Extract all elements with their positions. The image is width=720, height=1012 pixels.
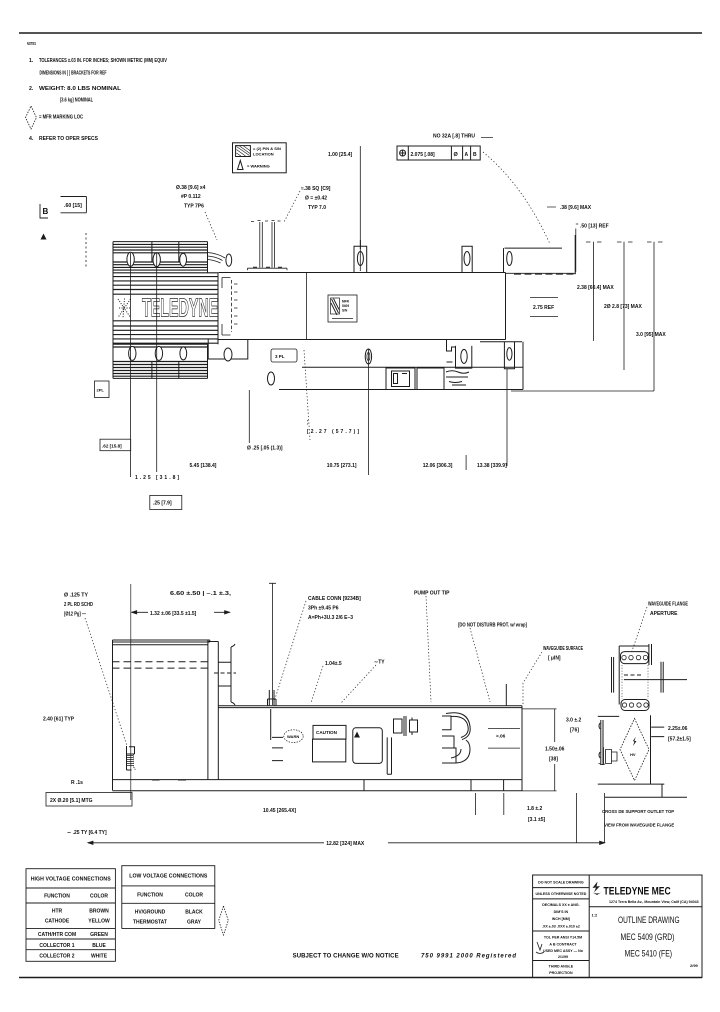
left margin small box	[95, 381, 110, 398]
svg-text:2.: 2.	[29, 86, 34, 92]
svg-text:12.82 [324] MAX: 12.82 [324] MAX	[326, 841, 365, 847]
datum extension dotted	[85, 233, 87, 268]
right bracket	[218, 644, 235, 705]
svg-text:10.75 [273.1]: 10.75 [273.1]	[327, 463, 357, 469]
svg-text:FUNCTION: FUNCTION	[44, 894, 70, 900]
tall block outline	[113, 640, 219, 790]
svg-text:.50 [13] REF: .50 [13] REF	[580, 224, 609, 230]
svg-text:3 PL: 3 PL	[275, 354, 285, 359]
pins text block	[301, 186, 331, 211]
svg-text:1.50±.06: 1.50±.06	[545, 747, 565, 753]
svg-text:[DO NOT DISTURB PROT. w/ wrap]: [DO NOT DISTURB PROT. w/ wrap]	[458, 623, 527, 629]
block bottom hidden dashes	[152, 779, 186, 781]
svg-text:1274 Terra Bella Av., Mountain: 1274 Terra Bella Av., Mountain View, Cal…	[609, 900, 699, 904]
lead loop upper	[442, 713, 470, 740]
svg-text:Ø: Ø	[454, 152, 459, 158]
svg-text:BROWN: BROWN	[89, 909, 109, 915]
svg-text:TYP 7.0: TYP 7.0	[308, 205, 326, 211]
svg-text:2.25±.06: 2.25±.06	[668, 726, 688, 732]
svg-text:LOW VOLTAGE CONNECTIONS: LOW VOLTAGE CONNECTIONS	[129, 874, 208, 880]
svg-text:[3.6 kg] NOMINAL: [3.6 kg] NOMINAL	[60, 98, 94, 104]
svg-text:CAUTION: CAUTION	[316, 730, 338, 735]
svg-text:[Ø12 Pg] —: [Ø12 Pg] —	[64, 612, 86, 618]
svg-text:TOL PER ANSI Y14.5M: TOL PER ANSI Y14.5M	[544, 936, 582, 940]
dim arrow 1.32	[132, 611, 230, 614]
svg-text:1.8 ±.2: 1.8 ±.2	[527, 806, 542, 812]
svg-text:∼ .25 TY [6.4 TY]: ∼ .25 TY [6.4 TY]	[67, 830, 107, 836]
svg-text:REFER TO OPER SPECS: REFER TO OPER SPECS	[39, 136, 99, 142]
svg-text:HV: HV	[630, 752, 636, 757]
REF box	[530, 298, 558, 317]
rf tab	[447, 340, 472, 369]
right dim ticks	[651, 727, 664, 737]
svg-text:CATHODE: CATHODE	[45, 919, 70, 925]
svg-text:HTR: HTR	[52, 909, 63, 915]
svg-text:GRAY: GRAY	[187, 920, 202, 926]
flange bolt holes top	[622, 655, 626, 659]
svg-text:SUBJECT TO CHANGE W/O NOTICE: SUBJECT TO CHANGE W/O NOTICE	[293, 954, 399, 960]
svg-text:A B CONTRACT: A B CONTRACT	[549, 943, 577, 947]
dim ticks .06	[488, 729, 520, 749]
strip small hole	[268, 372, 275, 385]
boxed label on strip	[271, 349, 297, 362]
svg-text:THERMOSTAT: THERMOSTAT	[133, 920, 167, 926]
inner tick marks	[272, 737, 283, 760]
svg-text:DECIMALS XX ± ANG.: DECIMALS XX ± ANG.	[542, 903, 579, 907]
fin lines lower flange	[113, 347, 208, 376]
svg-text:TYP 7P6: TYP 7P6	[184, 204, 204, 210]
pump out tip	[505, 684, 507, 706]
svg-text:= WARNING: = WARNING	[247, 164, 270, 169]
datum B symbol	[40, 204, 48, 218]
top border line	[19, 32, 702, 34]
dotted leader to fin corner	[205, 212, 217, 240]
svg-text:4.: 4.	[29, 136, 34, 142]
teledyne logo mark	[593, 882, 601, 893]
GDT leader dotted	[483, 152, 550, 243]
flange top holes plate	[621, 652, 649, 664]
fin slot hole 2	[153, 253, 160, 267]
lower fin slot hole 3	[180, 347, 187, 360]
top tab hole 3	[507, 252, 512, 266]
connector note	[308, 596, 361, 621]
rf channel	[387, 737, 391, 774]
svg-text:WHITE: WHITE	[91, 954, 108, 960]
svg-text:DO NOT SCALE DRAWING: DO NOT SCALE DRAWING	[538, 881, 584, 885]
svg-text:OUTLINE DRAWING: OUTLINE DRAWING	[618, 915, 680, 925]
base plate	[113, 780, 523, 791]
low voltage connections table	[122, 866, 215, 929]
svg-text:6.60 ±.50 | −.1 ±.3,: 6.60 ±.50 | −.1 ±.3,	[170, 591, 232, 597]
svg-text:B: B	[43, 207, 49, 216]
fin lines middle band	[113, 277, 218, 345]
hole centerline 1	[130, 253, 132, 477]
svg-text:R .1s: R .1s	[71, 780, 83, 786]
svg-text:[38]: [38]	[549, 757, 558, 763]
approval squiggle	[536, 942, 544, 954]
svg-text:#P 0.112: #P 0.112	[181, 194, 201, 200]
svg-text:5409: 5409	[342, 304, 349, 308]
svg-text:WARN: WARN	[287, 734, 299, 739]
boxed dim .25	[150, 495, 182, 509]
flange lower holes plate	[621, 700, 649, 711]
pin top marks	[251, 221, 281, 222]
rf tab hole	[461, 349, 467, 363]
svg-text:2 PL RD SCHD: 2 PL RD SCHD	[64, 602, 93, 608]
svg-text:[57.2±1.5]: [57.2±1.5]	[668, 737, 691, 743]
flange centerlines	[624, 674, 642, 676]
svg-text:DIM'S IN: DIM'S IN	[554, 910, 569, 914]
fin slot dividers upper	[152, 242, 179, 262]
detail legend box	[233, 143, 287, 173]
lower strip outline	[208, 340, 523, 390]
table marking diamond	[219, 906, 229, 935]
flying leads from fin block	[208, 253, 226, 264]
pin 2	[272, 222, 275, 268]
svg-text:.XX ±.03 .XXX ±.010 ±2: .XX ±.03 .XXX ±.010 ±2	[542, 925, 580, 929]
svg-text:CATH/HTR COM: CATH/HTR COM	[38, 932, 76, 938]
warning diamond	[620, 719, 649, 781]
svg-text:≈.06: ≈.06	[496, 734, 506, 740]
svg-text:.60 [15]: .60 [15]	[64, 203, 82, 209]
high voltage connections table	[26, 869, 115, 962]
svg-text:COLOR: COLOR	[185, 893, 203, 899]
body interface bracket	[222, 278, 231, 336]
extension line	[359, 146, 361, 271]
svg-text:COLLECTOR 1: COLLECTOR 1	[39, 943, 74, 949]
svg-text:CABLE CONN [9234B]: CABLE CONN [9234B]	[308, 596, 361, 602]
svg-text:1:2: 1:2	[592, 913, 599, 918]
svg-text:∼TY: ∼TY	[374, 660, 385, 666]
strip window 2	[417, 368, 444, 390]
svg-text:1.: 1.	[29, 58, 34, 64]
svg-text:A=Ph+3U.3 2/6 E–3: A=Ph+3U.3 2/6 E–3	[308, 615, 353, 621]
top mounting tab 2	[462, 246, 472, 272]
TELEDYNE logo on block	[118, 299, 131, 319]
svg-text:PUMP OUT TIP: PUMP OUT TIP	[414, 591, 450, 597]
lower fin slot hole 2	[155, 346, 162, 360]
flange bolt holes bottom	[622, 703, 626, 707]
svg-text:.25 [7.9]: .25 [7.9]	[153, 501, 172, 507]
GDT feature control frame	[397, 146, 480, 160]
svg-text:WAVEGUIDE FLANGE: WAVEGUIDE FLANGE	[648, 602, 689, 608]
svg-text:2.075 [.08]: 2.075 [.08]	[411, 152, 436, 158]
top mounting tab 3	[503, 248, 505, 272]
leader dia .25	[248, 390, 250, 443]
pin 1	[260, 222, 263, 268]
svg-text:2Ø 2.8 [73] MAX: 2Ø 2.8 [73] MAX	[604, 304, 642, 310]
datum triangle	[41, 234, 47, 240]
hidden fin lines dashed	[113, 662, 208, 668]
boss note	[64, 593, 93, 618]
step flange hole	[224, 348, 232, 361]
svg-text:HV/GROUND: HV/GROUND	[135, 910, 166, 916]
fin lines upper flange	[113, 244, 218, 272]
lower right tab hole	[507, 348, 512, 361]
svg-text:1.00 [25.4]: 1.00 [25.4]	[328, 152, 353, 158]
lead exit hole	[226, 254, 232, 266]
svg-text:BLACK: BLACK	[185, 910, 203, 916]
svg-text:≈.38 SQ [C9]: ≈.38 SQ [C9]	[301, 186, 331, 192]
svg-text:.38 [9.6] MAX: .38 [9.6] MAX	[560, 205, 592, 211]
svg-text:APERTURE: APERTURE	[650, 611, 678, 617]
svg-text:TELEDYNE: TELEDYNE	[142, 294, 218, 323]
centerline	[130, 584, 132, 800]
svg-text:WAVEGUIDE SURFACE: WAVEGUIDE SURFACE	[543, 646, 583, 652]
drawing title	[618, 915, 680, 959]
overall dim line 12.82	[88, 841, 605, 844]
svg-text:13.38 [339.9]: 13.38 [339.9]	[477, 463, 507, 469]
mounting boss hatched	[127, 746, 135, 770]
WARN oval label	[284, 730, 303, 743]
svg-text:VIEW FROM WAVEGUIDE FLANGE: VIEW FROM WAVEGUIDE FLANGE	[604, 822, 674, 827]
svg-text:YELLOW: YELLOW	[88, 919, 110, 925]
svg-text:USED MEC ASSY — No: USED MEC ASSY — No	[543, 949, 584, 953]
svg-text:A: A	[465, 152, 469, 158]
svg-text:[76]: [76]	[570, 728, 579, 734]
right extension ticks	[476, 793, 605, 843]
fin slot dividers lower	[152, 362, 179, 378]
svg-text:Ø.38 [9.6] x4: Ø.38 [9.6] x4	[176, 185, 206, 191]
svg-text:S/N: S/N	[342, 309, 348, 313]
waveguide flange body	[619, 644, 651, 705]
svg-text:1.32 ±.06 [33.5 ±1.5]: 1.32 ±.06 [33.5 ±1.5]	[150, 611, 197, 617]
svg-text:Ø = ±0.42: Ø = ±0.42	[305, 196, 327, 202]
svg-text:NO 32A [.8] THRU: NO 32A [.8] THRU	[433, 134, 475, 140]
svg-text:[ µIN]: [ µIN]	[548, 656, 561, 662]
top tab hole 2	[464, 252, 470, 266]
right dim extension lines	[511, 242, 663, 391]
fin block outline	[113, 242, 218, 379]
svg-text:3.0 [95] MAX: 3.0 [95] MAX	[636, 332, 666, 338]
pin base flange	[248, 267, 288, 270]
svg-text:CROSS DE SUPPORT OUTLET TOP: CROSS DE SUPPORT OUTLET TOP	[602, 809, 674, 814]
boxed dim .62	[100, 439, 131, 451]
left connector wires	[599, 720, 603, 765]
svg-text:B: B	[473, 152, 477, 158]
lower right tab	[480, 342, 522, 369]
svg-text:UNLESS OTHERWISE NOTED: UNLESS OTHERWISE NOTED	[535, 892, 586, 896]
left extension w tick	[269, 583, 276, 705]
lower body outline	[218, 706, 522, 780]
svg-text:750 9991 2000 Registered: 750 9991 2000 Registered	[421, 954, 516, 960]
svg-text:= (2) P/N & S/N: = (2) P/N & S/N	[253, 146, 281, 151]
svg-text:NOTES: NOTES	[27, 41, 36, 46]
svg-text:INCH [MM]: INCH [MM]	[552, 917, 570, 921]
svg-text:FUNCTION: FUNCTION	[137, 893, 163, 899]
strip window 1	[386, 368, 415, 390]
CAUTION label	[313, 725, 347, 761]
top mounting tab 1	[354, 240, 367, 273]
svg-text:2/99: 2/99	[690, 963, 699, 968]
strip hole w/ centerline	[365, 349, 371, 364]
svg-text:1.04±.5: 1.04±.5	[325, 661, 342, 667]
support bracket top	[598, 715, 619, 717]
svg-text:3Ph ±9.45 P6: 3Ph ±9.45 P6	[308, 606, 339, 612]
dotted leader to pins	[284, 191, 300, 222]
leader text upper-left of pins	[176, 185, 206, 210]
svg-text:BLUE: BLUE	[92, 943, 106, 949]
base lines	[598, 784, 687, 797]
side panel	[353, 728, 383, 764]
svg-text:2X Ø.20 [5.1] MTG: 2X Ø.20 [5.1] MTG	[50, 798, 93, 804]
svg-text:MEC 5409 (GRD): MEC 5409 (GRD)	[621, 932, 675, 942]
right dim line	[522, 709, 557, 791]
lower left step flange	[208, 340, 248, 360]
top tab hole 1	[357, 252, 363, 266]
hole centerline 2	[156, 253, 158, 472]
marking diamond symbol	[26, 106, 37, 129]
svg-text:[2.27 (57.7)]: [2.27 (57.7)]	[307, 429, 359, 435]
svg-text:2PL: 2PL	[97, 388, 105, 393]
svg-text:2.40 [61] TYP: 2.40 [61] TYP	[43, 717, 75, 723]
lower fin slot hole 1	[129, 346, 136, 360]
svg-text:[3.1 ±5]: [3.1 ±5]	[528, 817, 546, 823]
svg-text:HIGH VOLTAGE CONNECTIONS: HIGH VOLTAGE CONNECTIONS	[31, 877, 112, 883]
svg-text:WEIGHT: 8.0 LBS NOMINAL: WEIGHT: 8.0 LBS NOMINAL	[39, 86, 122, 92]
svg-text:TELEDYNE MEC: TELEDYNE MEC	[604, 886, 671, 898]
bottom dim line of top view	[511, 390, 654, 392]
svg-text:MFR: MFR	[342, 300, 350, 304]
svg-text:= MFR MARKING LOC: = MFR MARKING LOC	[39, 115, 83, 121]
svg-text:PROJECTION: PROJECTION	[549, 971, 573, 975]
main body outline	[218, 273, 505, 340]
svg-text:5.45 [138.4]: 5.45 [138.4]	[190, 463, 217, 469]
svg-text:2/1/99: 2/1/99	[558, 955, 568, 959]
svg-text:GREEN: GREEN	[90, 932, 108, 938]
svg-text:TOLERANCES ±.03 IN. FOR INCHES: TOLERANCES ±.03 IN. FOR INCHES; SHOWN ME…	[39, 58, 167, 64]
arrow marker	[354, 732, 360, 738]
svg-text:Ø .25 [.05 (1.3)]: Ø .25 [.05 (1.3)]	[247, 446, 283, 452]
svg-text:.62 [15.8]: .62 [15.8]	[102, 444, 122, 449]
boxed dim .60 [15]	[61, 197, 87, 213]
fin slot hole 3	[180, 253, 187, 266]
svg-text:COLOR: COLOR	[90, 894, 108, 900]
support vertical	[650, 715, 652, 784]
svg-text:Ø .125 TY: Ø .125 TY	[64, 593, 89, 599]
right upper extension	[505, 235, 576, 274]
annotations above side view	[269, 583, 276, 705]
svg-text:2.75 REF: 2.75 REF	[533, 305, 554, 311]
bottom border line	[19, 977, 702, 979]
lead loop lower	[442, 736, 470, 763]
title block frame	[533, 875, 702, 978]
connector posts	[268, 690, 277, 740]
svg-text:MEC 5410 (FE): MEC 5410 (FE)	[625, 949, 673, 959]
body partition line	[306, 273, 308, 340]
left plug	[599, 747, 618, 764]
svg-text:10.45 [265.4X]: 10.45 [265.4X]	[263, 808, 296, 814]
svg-text:COLLECTOR 2: COLLECTOR 2	[39, 954, 74, 960]
svg-text:LOCATION: LOCATION	[253, 152, 274, 157]
svg-text:DIMENSIONS IN [ ] BRACKETS FOR: DIMENSIONS IN [ ] BRACKETS FOR REF	[40, 71, 107, 77]
svg-text:12.06 [306.3]: 12.06 [306.3]	[423, 463, 453, 469]
body nameplate	[328, 295, 357, 322]
svg-text:3.0 ±.2: 3.0 ±.2	[566, 718, 581, 724]
svg-text:2.38 [60.4] MAX: 2.38 [60.4] MAX	[577, 285, 614, 291]
hv connector cluster	[394, 716, 418, 736]
rf squiggle lines	[446, 371, 469, 385]
fin slot hole 1	[127, 252, 134, 266]
svg-text:THIRD ANGLE: THIRD ANGLE	[549, 965, 574, 969]
